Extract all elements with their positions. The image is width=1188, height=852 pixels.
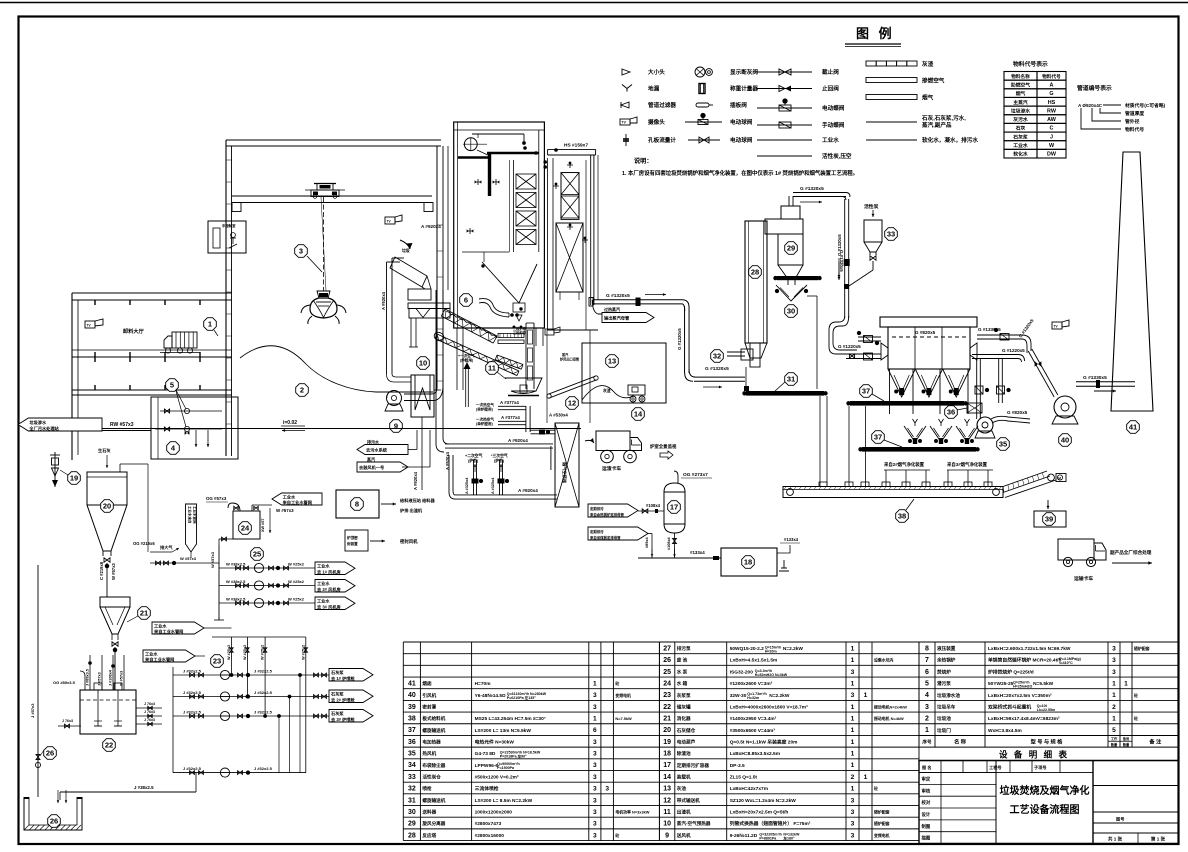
svg-text:垃圾渗水池: 垃圾渗水池 [937,692,960,699]
svg-text:21: 21 [663,716,671,723]
svg-text:WxH=3.8x4.5m: WxH=3.8x4.5m [988,728,1022,734]
svg-text:TV: TV [387,220,392,224]
svg-text:物料代号: 物料代号 [1042,73,1061,80]
svg-text:2: 2 [851,774,855,781]
svg-text:共 1 张: 共 1 张 [1108,835,1123,842]
svg-text:LxBxH=20x7x2.5m V=350m³: LxBxH=20x7x2.5m V=350m³ [988,693,1052,699]
svg-text:电机功率 N=3x3kW: 电机功率 N=3x3kW [615,810,649,815]
svg-text:石灰浆: 石灰浆 [1012,133,1028,140]
svg-text:掺燃空气: 掺燃空气 [922,77,945,85]
svg-text:3: 3 [593,821,597,828]
svg-text:炉顶密: 炉顶密 [346,535,358,540]
svg-text:地漏: 地漏 [648,85,660,93]
svg-text:3: 3 [851,692,855,699]
svg-text:i=0.02: i=0.02 [283,420,297,426]
svg-text:W #57x3: W #57x3 [210,551,215,568]
svg-text:校对: 校对 [922,799,931,806]
svg-text:1: 1 [851,786,855,793]
svg-text:工作: 工作 [1111,736,1118,741]
svg-text:出渣机: 出渣机 [677,809,691,816]
svg-text:34: 34 [408,762,416,769]
svg-text:W #38x2.5: W #38x2.5 [226,562,246,567]
svg-text:Lk=22.55m: Lk=22.55m [1037,708,1055,712]
svg-text:插板阀: 插板阀 [730,101,747,109]
svg-text:排污水: 排污水 [367,439,380,445]
svg-text:储灰罐: 储灰罐 [677,703,691,710]
svg-text:OG #219x6: OG #219x6 [133,541,155,546]
svg-text:HS #159x7: HS #159x7 [564,143,588,149]
svg-text:18: 18 [744,558,752,567]
svg-text:去 1# 风机房: 去 1# 风机房 [317,568,341,575]
svg-text:Q=0.5t N=1.1kW 吊装高度 20m: Q=0.5t N=1.1kW 吊装高度 20m [730,738,798,745]
svg-text:卸料大厅: 卸料大厅 [123,327,145,335]
svg-text:37: 37 [408,727,416,734]
svg-text:3: 3 [1112,657,1116,664]
svg-text:截止阀: 截止阀 [822,68,839,76]
svg-text:设计: 设计 [922,811,931,818]
svg-text:25: 25 [663,669,671,676]
svg-text:工艺设备流程图: 工艺设备流程图 [1010,803,1080,816]
svg-text:*三次空气: *三次空气 [491,453,508,458]
svg-text:蒸汽-空气预热器: 蒸汽-空气预热器 [677,820,711,827]
svg-text:制图: 制图 [922,823,931,830]
svg-text:W #38x2.5: W #38x2.5 [226,597,246,602]
svg-text:22: 22 [663,704,671,711]
svg-text:(炉前): (炉前) [468,458,479,463]
svg-text:振动电机N=2x4kW: 振动电机N=2x4kW [874,704,907,709]
svg-text:38: 38 [408,716,416,723]
svg-text:电动球阀: 电动球阀 [730,118,753,126]
svg-text:30: 30 [408,809,416,816]
svg-text:螺旋输送机: 螺旋输送机 [422,797,445,804]
svg-text:17: 17 [670,503,678,512]
svg-text:灰渣: 灰渣 [922,60,934,68]
svg-text:12: 12 [568,399,576,408]
svg-text:灰池: 灰池 [677,785,687,792]
svg-text:J #57x3: J #57x3 [30,703,35,718]
svg-text:1: 1 [851,751,855,758]
svg-text:手动蝶阀: 手动蝶阀 [822,121,845,129]
svg-text:M: M [1058,477,1061,481]
svg-text:子项号: 子项号 [1034,764,1047,771]
svg-text:P=6210Pa 左135°: P=6210Pa 左135° [507,695,536,700]
svg-text:50YW25-25: 50YW25-25 [988,681,1014,687]
svg-text:14: 14 [663,774,671,781]
svg-text:1: 1 [851,657,855,664]
svg-text:26: 26 [50,817,58,826]
svg-text:10: 10 [419,359,427,368]
svg-text:19: 19 [70,474,78,483]
svg-text:33: 33 [887,230,895,239]
svg-text:LxBxH=4.5x1.5x1.5m: LxBxH=4.5x1.5x1.5m [730,658,778,664]
svg-text:H=20m: H=20m [765,649,777,653]
svg-text:J 76x3: J 76x3 [144,702,155,706]
svg-text:3: 3 [851,797,855,804]
svg-text:板式给料机: 板式给料机 [422,715,445,722]
svg-text:G #1320x5: G #1320x5 [800,186,824,192]
svg-text:37: 37 [862,387,870,396]
svg-text:AW: AW [1047,117,1057,123]
svg-text:1: 1 [864,774,868,781]
svg-text:定期排污: 定期排污 [589,506,604,511]
svg-text:潜污泵: 潜污泵 [937,680,951,687]
svg-text:LS#200 L= 8.5m N=2.2: LS#200 L= 8.5m N=2.2kW [475,798,533,804]
svg-text:1: 1 [208,320,212,329]
svg-text:孔板流量计: 孔板流量计 [648,136,676,144]
svg-text:砼: 砼 [1133,693,1138,698]
svg-text:LS#200 L= 13m N=5.5: LS#200 L= 13m N=5.5kW [475,728,532,734]
svg-text:来自省煤器定排母管: 来自省煤器定排母管 [589,535,621,540]
svg-text:28: 28 [408,832,416,839]
svg-text:3: 3 [593,762,597,769]
svg-text:(炉膛用): (炉膛用) [460,358,474,363]
svg-text:A #325x4: A #325x4 [491,477,495,494]
svg-text:DP-3.5: DP-3.5 [730,763,745,769]
svg-text:运输卡车: 运输卡车 [1074,575,1093,582]
svg-text:A Ø920x4C: A Ø920x4C [1078,103,1103,108]
svg-text:W #57x3: W #57x3 [276,508,294,513]
svg-text:TV: TV [87,324,92,328]
svg-text:工业水: 工业水 [1013,142,1028,149]
svg-text:工业水来自: 工业水来自 [188,506,193,524]
svg-text:炉排焚烧炉 Q=225t/d: 炉排焚烧炉 Q=225t/d [988,668,1034,675]
svg-text:蒸汽,副产品: 蒸汽,副产品 [922,121,952,129]
svg-text:41: 41 [408,680,416,687]
svg-text:去 3# 风机房: 去 3# 风机房 [317,603,341,610]
svg-text:26: 26 [46,749,54,758]
svg-text:A #920x4: A #920x4 [508,438,528,443]
svg-text:灰渣: 灰渣 [603,388,611,393]
svg-text:TV: TV [622,121,627,125]
svg-text:31: 31 [408,797,416,804]
svg-text:炉室全景监视: 炉室全景监视 [650,443,677,450]
svg-text:1: 1 [851,645,855,652]
svg-text:定期排污扩容器: 定期排污扩容器 [677,762,710,769]
svg-text:砼: 砼 [1133,716,1138,721]
svg-text:XW #57: XW #57 [261,518,265,532]
svg-text:三流体喷枪: 三流体喷枪 [475,785,499,792]
svg-text:三段炉排: 三段炉排 [513,330,527,335]
svg-text:去 1# 炉喷枪: 去 1# 炉喷枪 [331,675,356,682]
svg-text:33: 33 [408,774,416,781]
svg-text:SZ120 WxL=1.2x4m N=2.2kW: SZ120 WxL=1.2x4m N=2.2kW [730,798,797,804]
svg-text:#3500x6500 V=44m³: #3500x6500 V=44m³ [730,728,776,734]
svg-text:32: 32 [713,352,721,361]
svg-text:LxBxH=2.600x1.722x1.5m N=69.7: LxBxH=2.600x1.722x1.5m N=69.7kW [988,646,1071,652]
svg-text:3: 3 [851,821,855,828]
svg-text:反应塔: 反应塔 [422,832,436,839]
svg-text:热风机: 热风机 [422,750,436,757]
svg-text:生石灰: 生石灰 [98,447,111,454]
svg-text:3: 3 [593,704,597,711]
svg-text:2: 2 [300,386,304,395]
svg-text:10: 10 [663,821,671,828]
svg-text:电热元件 N=30kW: 电热元件 N=30kW [475,738,515,745]
svg-text:J #32x2.5: J #32x2.5 [183,690,202,695]
svg-text:电加热器: 电加热器 [422,738,441,745]
svg-text:3: 3 [593,809,597,816]
svg-text:27: 27 [663,645,671,652]
svg-text:J #32x2.5: J #32x2.5 [254,766,273,771]
svg-text:37: 37 [874,433,882,442]
svg-text:一次热空气: 一次热空气 [476,417,494,422]
svg-text:输出蒸汽母管: 输出蒸汽母管 [604,314,630,321]
svg-text:W #57x3: W #57x3 [120,671,124,686]
svg-text:显示断灰阀: 显示断灰阀 [730,68,758,76]
svg-text:一次热空气: 一次热空气 [476,402,494,407]
svg-text:1: 1 [851,716,855,723]
svg-text:G #1320x5: G #1320x5 [705,366,729,372]
svg-text:2: 2 [1112,704,1116,711]
svg-text:36: 36 [408,739,416,746]
svg-text:石灰储仓: 石灰储仓 [676,727,696,734]
svg-text:排污泵: 排污泵 [677,645,691,652]
svg-text:型 号 与 规 格: 型 号 与 规 格 [1031,738,1064,746]
svg-text:去污水系统: 去污水系统 [366,446,388,453]
svg-text:H=25mH2O: H=25mH2O [1013,684,1032,688]
svg-text:3: 3 [1112,645,1116,652]
svg-text:N=2.2kW: N=2.2kW [769,693,790,699]
svg-text:1: 1 [851,727,855,734]
svg-text:P=2018Pa 左90°: P=2018Pa 左90° [500,754,527,759]
svg-text:H=52mH2O N=3kW: H=52mH2O N=3kW [755,673,788,677]
svg-text:14: 14 [634,410,643,419]
svg-text:来自工业水管网: 来自工业水管网 [283,499,312,506]
svg-text:振动电机 N=4kW: 振动电机 N=4kW [874,716,904,721]
svg-text:#108x4: #108x4 [646,503,661,508]
svg-text:P=8891Pa: P=8891Pa [759,836,777,840]
svg-text:主蒸汽: 主蒸汽 [1013,99,1028,106]
svg-text:20: 20 [103,502,111,511]
svg-text:3: 3 [593,786,597,793]
svg-text:G #1320x5: G #1320x5 [839,250,844,272]
svg-text:7: 7 [925,657,929,664]
svg-text:TV: TV [1054,325,1059,329]
svg-text:G4-73 8D: G4-73 8D [475,751,496,757]
svg-text:管道过滤器: 管道过滤器 [648,101,676,109]
svg-text:废 池: 废 池 [677,657,688,664]
svg-text:运渣卡车: 运渣卡车 [602,465,621,472]
svg-text:MS25 L=43.254m H=7.5m ≥=30°: MS25 L=43.254m H=7.5m ≥=30° [475,716,546,722]
svg-text:J #32x2.5: J #32x2.5 [183,669,202,674]
svg-text:石灰: 石灰 [1015,125,1026,132]
svg-text:(炉前): (炉前) [494,458,505,463]
svg-text:G #1220x5: G #1220x5 [838,344,861,349]
svg-text:软化水: 软化水 [1013,151,1028,158]
svg-text:称重计量器: 称重计量器 [730,85,758,93]
svg-text:全厂污水处理站: 全厂污水处理站 [28,425,59,432]
svg-text:图号: 图号 [1116,816,1124,823]
svg-text:6: 6 [925,669,929,676]
svg-text:3: 3 [851,832,855,839]
svg-text:列管式换热器（翅面管翅片） F=75m²: 列管式换热器（翅面管翅片） F=75m² [730,820,811,827]
svg-text:26: 26 [663,657,671,664]
svg-text:P=1500Pa: P=1500Pa [497,766,515,770]
svg-text:设 备 明 细 表: 设 备 明 细 表 [999,750,1069,760]
svg-text:中控制室: 中控制室 [222,223,236,228]
svg-text:去 2# 风机房: 去 2# 风机房 [317,586,341,593]
svg-text:36: 36 [947,408,955,417]
svg-text:1: 1 [593,716,597,723]
svg-text:W #25x2: W #25x2 [288,562,305,567]
svg-text:41: 41 [1129,423,1137,432]
svg-text:带式输送机: 带式输送机 [677,797,700,804]
svg-text:#89x4: #89x4 [645,537,649,548]
svg-text:J #38x2.5: J #38x2.5 [134,785,154,790]
svg-text:RW: RW [1047,108,1057,114]
svg-text:J: J [1050,134,1053,140]
svg-text:焚烧炉: 焚烧炉 [937,668,951,675]
svg-text:垃圾门: 垃圾门 [937,727,951,734]
svg-text:烟气: 烟气 [1016,90,1026,97]
svg-text:13: 13 [663,786,671,793]
svg-text:单锅筒自然循环锅炉 MCR=20.4t/h: 单锅筒自然循环锅炉 MCR=20.4t/h [988,657,1061,664]
svg-text:3: 3 [851,669,855,676]
svg-text:+二次空气: +二次空气 [465,453,483,458]
svg-text:H=32m: H=32m [747,696,759,700]
svg-text:数量: 数量 [1110,742,1118,747]
svg-text:布袋除尘器: 布袋除尘器 [422,762,445,769]
svg-text:旋风分离器: 旋风分离器 [421,820,445,827]
svg-text:J #108x4: J #108x4 [109,669,113,686]
svg-text:审核: 审核 [922,787,931,794]
svg-text:W #25x2: W #25x2 [288,597,305,602]
svg-text:3: 3 [1112,669,1116,676]
svg-text:OG #273x7: OG #273x7 [683,472,708,478]
svg-text:1: 1 [1112,692,1116,699]
svg-text:装载机: 装载机 [676,774,691,781]
svg-text:备用: 备用 [1122,736,1129,741]
svg-text:+一次空气: +一次空气 [458,353,475,358]
svg-text:J #32x2.5: J #32x2.5 [254,710,273,715]
svg-text:19: 19 [663,739,671,746]
svg-text:OG #57x3: OG #57x3 [206,496,227,501]
svg-text:审定: 审定 [922,775,931,782]
svg-text:3: 3 [593,832,597,839]
svg-text:A #920x4: A #920x4 [413,471,418,490]
svg-text:G: G [1049,91,1053,97]
svg-text:17: 17 [663,762,671,769]
svg-text:余热锅炉: 余热锅炉 [936,657,956,664]
svg-text:去 2# 炉喷枪: 去 2# 炉喷枪 [331,696,356,703]
svg-text:图 例: 图 例 [856,26,895,41]
svg-text:砼: 砼 [873,786,878,791]
svg-text:A #920x4: A #920x4 [518,488,538,493]
svg-text:A: A [1050,82,1054,88]
svg-text:A #377x4: A #377x4 [500,400,519,405]
svg-text:工业水: 工业水 [822,136,839,144]
svg-text:灰污水: 灰污水 [1013,116,1028,123]
svg-text:3: 3 [593,739,597,746]
svg-text:蒸汽: 蒸汽 [366,456,375,462]
svg-text:23: 23 [213,657,221,666]
svg-text:工程号: 工程号 [989,764,1002,771]
svg-text:9: 9 [394,422,398,431]
svg-text:第 1 张: 第 1 张 [1151,835,1166,842]
svg-text:3: 3 [593,751,597,758]
svg-text:28: 28 [751,268,759,277]
svg-text:DW: DW [1047,152,1057,158]
svg-text:1: 1 [851,704,855,711]
svg-text:管道编号表示: 管道编号表示 [1077,84,1112,92]
svg-text:送风机: 送风机 [676,832,691,839]
svg-text:蒸汽: 蒸汽 [562,352,569,357]
svg-text:50WQ15-20-2.2: 50WQ15-20-2.2 [730,646,764,652]
svg-text:烟气空预器: 烟气空预器 [561,462,568,484]
svg-text:G #1320x5: G #1320x5 [606,293,630,299]
svg-text:随炉配套: 随炉配套 [874,810,890,815]
svg-text:A #530x4: A #530x4 [549,413,568,418]
svg-text:变频电机: 变频电机 [615,693,631,698]
svg-text:ZL15 Q=1.5t: ZL15 Q=1.5t [730,775,758,781]
svg-text:#2800x16000: #2800x16000 [475,833,505,839]
svg-text:材质代号(C可省略): 材质代号(C可省略) [1124,102,1166,109]
svg-text:密封风机: 密封风机 [400,538,418,545]
svg-text:喷枪: 喷枪 [422,785,432,792]
svg-text:活性炭仓: 活性炭仓 [422,774,441,781]
svg-text:1. 本厂房设有四套垃圾焚烧锅炉和烟气净化装置，在图中仅表示: 1. 本厂房设有四套垃圾焚烧锅炉和烟气净化装置，在图中仅表示 1# 焚烧锅炉和烟… [622,169,858,177]
svg-text:封装置: 封装置 [347,541,358,546]
svg-text:垃圾渗水: 垃圾渗水 [1011,107,1030,114]
svg-text:W #57x3: W #57x3 [111,563,116,580]
svg-text:3: 3 [605,786,609,793]
svg-text:39: 39 [408,704,416,711]
svg-text:J #32x2.5: J #32x2.5 [183,766,202,771]
svg-text:29: 29 [408,821,416,828]
svg-text:止回阀: 止回阀 [822,85,839,93]
svg-text:电动球阀: 电动球阀 [730,136,753,144]
svg-text:#500x1200 V=0.2m³: #500x1200 V=0.2m³ [475,775,519,781]
svg-text:1: 1 [1112,680,1116,687]
svg-text:W: W [1049,143,1055,149]
svg-text:30: 30 [787,307,795,316]
svg-text:A #920x4: A #920x4 [381,291,386,310]
svg-text:副产品全厂综合处理: 副产品全厂综合处理 [1110,549,1152,556]
svg-text:备 注: 备 注 [1148,738,1162,746]
svg-text:活性炭: 活性炭 [864,203,879,210]
svg-text:G #1330x5: G #1330x5 [1083,375,1107,381]
svg-text:来自3#烟气净化装置: 来自3#烟气净化装置 [946,461,988,468]
svg-text:3: 3 [851,809,855,816]
svg-text:密封罩: 密封罩 [422,703,436,710]
svg-text:35: 35 [408,751,416,758]
svg-text:1: 1 [1124,680,1128,687]
svg-text:2: 2 [925,716,929,723]
svg-text:20: 20 [663,727,671,734]
svg-text:38: 38 [898,512,906,521]
svg-text:垃圾池: 垃圾池 [937,715,951,722]
svg-text:管道厚度: 管道厚度 [1125,110,1144,117]
svg-text:W #25x2: W #25x2 [288,579,305,584]
svg-text:24: 24 [663,680,671,687]
svg-text:LPPW96-6: LPPW96-6 [475,763,499,769]
svg-text:左180°: 左180° [782,835,795,840]
svg-text:5: 5 [1112,727,1116,734]
svg-text:5: 5 [925,680,929,687]
svg-text:A #920x4: A #920x4 [445,451,450,470]
svg-text:1: 1 [593,680,597,687]
svg-text:LxBxH=4000x2600x1800 V=18.7m³: LxBxH=4000x2600x1800 V=18.7m³ [730,704,808,710]
svg-text:(单炉膛用): (单炉膛用) [476,407,494,412]
svg-text:18: 18 [663,751,671,758]
svg-text:1: 1 [851,762,855,769]
svg-text:炉风出口母管: 炉风出口母管 [559,357,580,362]
svg-text:1: 1 [1112,716,1116,723]
svg-text:3: 3 [925,704,929,711]
svg-text:ISG32-200: ISG32-200 [730,669,754,675]
svg-text:3: 3 [593,774,597,781]
svg-text:24: 24 [241,524,250,533]
